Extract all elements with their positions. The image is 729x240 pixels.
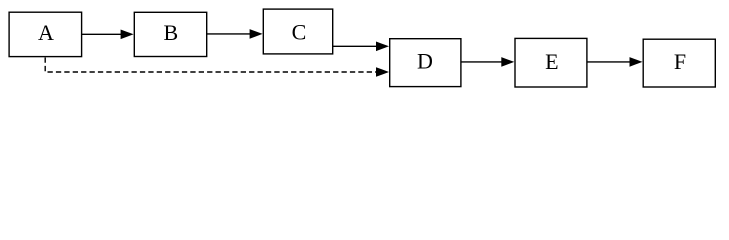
arrow E to F [587,57,643,67]
box C [263,9,332,54]
box A [9,12,82,56]
svg-text:A: A [38,20,54,45]
svg-text:D: D [417,49,433,74]
box F [643,39,715,87]
arrow A to B [82,30,134,40]
svg-text:B: B [163,20,178,45]
arrow C to D [333,42,389,52]
svg-text:F: F [674,49,686,74]
box B [134,12,206,56]
arrow B to C [207,29,263,39]
arrow D to E [461,57,514,67]
box E [515,38,587,87]
box D [390,39,461,87]
dashed arrow A to D [45,58,389,77]
svg-text:C: C [292,20,307,45]
svg-text:E: E [545,49,558,74]
